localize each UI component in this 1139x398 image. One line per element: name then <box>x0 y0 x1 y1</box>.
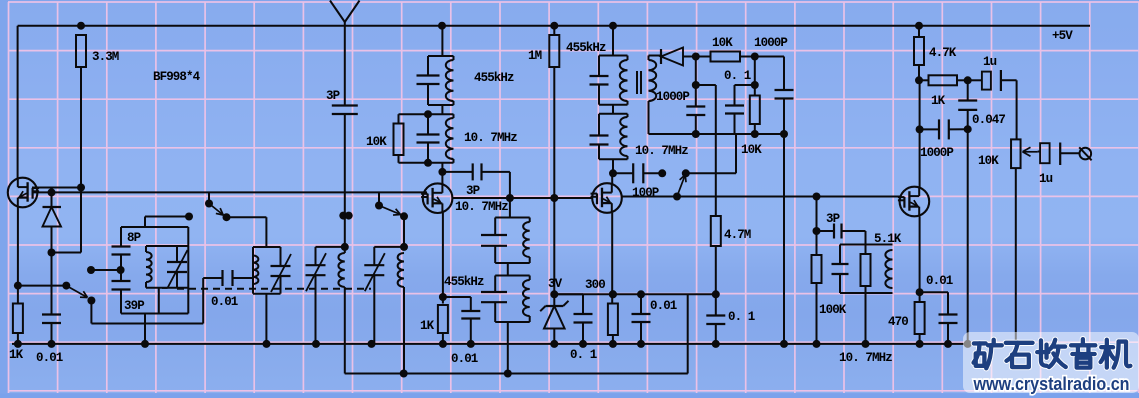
wire IFT2 mid b <box>427 143 429 163</box>
node source/AGC <box>14 282 22 290</box>
wire tank3 to busA <box>315 275 317 344</box>
svg-text:4.7K: 4.7K <box>929 46 957 60</box>
wire tap to 0.01 coupling <box>91 278 203 324</box>
node busA 0.1z <box>579 340 587 348</box>
wire IFT3 right b <box>529 257 531 263</box>
wire IFT1 right a <box>453 56 455 60</box>
label 4.7M <box>724 228 751 242</box>
capacitor 1u b <box>1038 143 1080 166</box>
wire 0.047 b <box>967 110 969 129</box>
wire tap line <box>91 269 121 271</box>
wire antenna down <box>344 114 346 253</box>
label 1000P c <box>920 146 953 160</box>
wire gang dashed link <box>177 288 371 290</box>
wire tank2 outline <box>253 247 281 266</box>
wire M1 drain to rail <box>17 26 19 178</box>
node busA 0.1b <box>712 340 720 348</box>
wire tank3 varcap branch <box>315 247 317 265</box>
wire detIFT2 left b <box>598 145 600 160</box>
wire quad left a <box>839 245 841 265</box>
label 10K b <box>712 36 733 50</box>
label BF998*4 <box>153 70 201 84</box>
capacitor 3P antenna <box>332 106 358 115</box>
label 455kHz a <box>474 71 514 85</box>
wire 5.1K stub b <box>865 286 867 293</box>
wire M4 gate stub <box>893 196 900 198</box>
output jack <box>1079 147 1091 160</box>
resistor 470 <box>915 302 925 334</box>
wire bus B <box>345 373 688 375</box>
resistor 1K M1 source <box>13 304 23 334</box>
wire rail to IFT1 <box>441 26 443 56</box>
svg-text:10. 7MHz: 10. 7MHz <box>455 200 508 214</box>
wire tank4 coil to busB <box>403 287 405 374</box>
transistor MOSFET M4 BF998 <box>898 187 929 217</box>
label 1K b <box>420 319 435 333</box>
svg-text:10. 7MHz: 10. 7MHz <box>839 351 892 365</box>
variable capacitor tank4 <box>364 253 385 291</box>
wire M2 bypass tee <box>443 297 471 311</box>
wire M1 G2 line <box>32 187 81 189</box>
wire tank3 coil to busB <box>345 287 688 374</box>
node M3 source <box>609 290 617 298</box>
capacitor 1000P c <box>939 119 949 139</box>
svg-text:10. 7MHz: 10. 7MHz <box>464 131 517 145</box>
label 3V <box>548 277 563 291</box>
svg-text:4.7M: 4.7M <box>724 228 751 242</box>
wire IFT4 bottom <box>495 321 530 323</box>
svg-text:1000P: 1000P <box>656 90 689 104</box>
node rail/detIFT <box>609 22 617 30</box>
node busA 300 <box>609 340 617 348</box>
wire det mid link <box>612 105 614 114</box>
svg-text:0. 1: 0. 1 <box>728 310 755 324</box>
label 0.01 e <box>926 274 953 288</box>
svg-text:1u: 1u <box>1039 172 1053 186</box>
node filter feed <box>506 194 514 202</box>
resistor 1M <box>549 35 559 67</box>
capacitor 0.01 M2 bypass <box>461 311 480 319</box>
wire secondary top <box>649 56 662 61</box>
label 3.3M <box>92 50 119 64</box>
wire 3P right stub <box>482 172 510 198</box>
node busA tank4 <box>368 340 376 348</box>
svg-text:1K: 1K <box>420 319 435 333</box>
wire 1M to gate line <box>553 67 555 294</box>
node tank4 feed <box>400 212 408 220</box>
wire 4.7K stubs <box>918 26 920 37</box>
wire tank1 to bus <box>144 314 146 344</box>
node AFC tap <box>682 169 690 177</box>
wire AF takeoff <box>696 85 716 216</box>
node busA tank3 <box>312 340 320 348</box>
svg-text:+5V: +5V <box>1052 29 1073 43</box>
capacitor IFT4 tune <box>481 292 507 302</box>
wire detIFT top <box>599 55 628 57</box>
wire quad bottom <box>840 292 893 294</box>
wire bias rail <box>554 293 716 295</box>
node det mid left <box>692 81 700 89</box>
wire IFT1 left a <box>427 56 429 76</box>
node 1000P c <box>964 125 972 133</box>
arrow AFC <box>677 175 686 197</box>
wire tank4 varcap branch <box>373 247 375 265</box>
transistor MOSFET M1 BF998 <box>8 178 39 208</box>
wire 5.1K stub a <box>865 245 867 255</box>
potentiometer wiper arrow <box>1023 147 1038 156</box>
label 0.01 c <box>451 352 478 366</box>
wire tank1 left top <box>120 227 122 247</box>
node IFT2 top <box>424 110 432 118</box>
node rail/1M <box>550 22 558 30</box>
capacitor 3P regen <box>473 163 482 180</box>
node drain/3P <box>438 168 446 176</box>
node rail/IFT feed <box>438 22 446 30</box>
label 4.7K <box>929 46 957 60</box>
wire 1K b to bus <box>442 333 444 344</box>
node busA tank2 <box>263 340 271 348</box>
wire 10K stub b <box>398 155 400 163</box>
transistor MOSFET M2 BF998 <box>421 183 452 213</box>
wire 0.1 AF down <box>715 324 717 344</box>
wire det bottom bus <box>649 133 785 135</box>
wire tank1 inner bottom <box>146 287 188 289</box>
node 8P/39P tap <box>117 266 125 274</box>
wire IFT1 bottom <box>428 104 454 106</box>
resistor 3.3M <box>76 35 86 67</box>
wire AGC line <box>18 285 66 287</box>
svg-text:10K: 10K <box>712 36 733 50</box>
label 10.7MHz a <box>464 131 517 145</box>
node busA line <box>964 340 972 348</box>
node det out <box>692 53 700 61</box>
svg-text:www.crystalradio.cn: www.crystalradio.cn <box>973 373 1130 394</box>
node det bus b <box>751 130 759 138</box>
wire 4.7M down <box>715 246 717 294</box>
svg-text:1000P: 1000P <box>754 36 787 50</box>
node busA 1000Pb <box>780 340 788 348</box>
wire M2 source down <box>442 213 444 304</box>
node rail/3.3M <box>77 22 85 30</box>
wire quad top <box>840 244 893 246</box>
capacitor 0.1 zener <box>574 314 593 323</box>
resistor 300 <box>608 304 618 336</box>
transistor MOSFET M3 BF998 <box>591 183 622 213</box>
node bias zener <box>550 290 558 298</box>
capacitor IFT2 tune <box>417 135 440 143</box>
wire IFT3 left a <box>494 218 496 236</box>
inductor detIFT primary <box>620 60 628 101</box>
wire IFT2 mid a <box>427 114 429 134</box>
wire quad left b <box>839 274 841 293</box>
wire tap2 stub <box>208 192 210 203</box>
wire IFT2 right a <box>453 114 455 118</box>
wire tank2 to bus <box>265 294 267 344</box>
node stub end <box>185 213 193 221</box>
capacitor detIFT2 tune <box>590 136 609 145</box>
wire tank1 inner left b <box>145 282 147 288</box>
node M4 source <box>916 288 924 296</box>
node AGC end <box>62 282 70 290</box>
wire det res right <box>740 56 755 58</box>
label 0.1 c <box>570 348 597 362</box>
node M4 gate tee <box>813 193 821 201</box>
wire quad to bus <box>865 293 867 344</box>
wire IFT2 right b <box>453 159 455 163</box>
label 1000P b <box>754 36 787 50</box>
wire 0.1 zener stub <box>554 293 583 295</box>
label 0.01 b <box>211 295 238 309</box>
svg-text:1K: 1K <box>931 94 946 108</box>
wire IFT3 bottom <box>495 262 530 264</box>
label 470 <box>888 315 908 329</box>
capacitor 0.01 coupling <box>223 270 233 286</box>
svg-text:0.01: 0.01 <box>650 299 677 313</box>
variable capacitor tank2 <box>271 254 292 292</box>
wire 1K out right <box>957 79 968 81</box>
wire det mid right <box>754 57 756 96</box>
label 100K <box>819 303 847 317</box>
node busA zener <box>550 340 558 348</box>
wire M3 to M4 gate <box>622 196 900 198</box>
wire detIFT2 right b <box>627 156 629 159</box>
wire detIFT2 to drain <box>612 159 614 173</box>
inductor IFT4 L <box>523 280 530 316</box>
node AF low <box>712 290 720 298</box>
capacitor 0.01 M3 <box>632 314 651 322</box>
node busA 0.01d <box>637 340 645 348</box>
node rail/4.7K <box>915 22 923 30</box>
capacitor 1000P a <box>686 107 705 116</box>
wire 100P stub <box>613 172 633 174</box>
capacitor 39P <box>112 281 131 290</box>
wire 0.047 a <box>967 80 969 100</box>
inductor tank4 L <box>398 253 404 287</box>
inductor IFT2 L <box>446 118 454 159</box>
wire 3P left stub <box>442 171 472 173</box>
wire 0.047 node down <box>967 129 969 344</box>
wire det node down <box>695 57 697 107</box>
node busA bypass <box>467 340 475 348</box>
inductor IFT1 L <box>446 60 454 101</box>
label 1u a <box>983 55 997 69</box>
node G1 tap2 <box>205 200 213 208</box>
wire IFT4 left b <box>494 302 496 322</box>
label 1M <box>528 49 542 63</box>
wire 0.01 M3 b <box>640 322 642 344</box>
label 1K c <box>931 94 946 108</box>
label 10. 7MHz b <box>455 200 508 214</box>
wire 3P line <box>817 230 835 232</box>
wire IFT1 right b <box>453 101 455 105</box>
node G2/3.3M <box>77 184 85 192</box>
watermark text 矿石收音机 (drawn as paths) <box>974 339 1131 368</box>
node amp out <box>915 76 923 84</box>
wire 8P to 39P <box>120 255 122 282</box>
node det bus a <box>692 130 700 138</box>
node busA quad <box>862 340 870 348</box>
node antenna tap a <box>339 212 347 220</box>
node bias M3 <box>609 290 617 298</box>
inductor tank3 L <box>338 253 344 287</box>
wire IFT4 right b <box>529 316 531 322</box>
svg-text:8P: 8P <box>127 231 141 245</box>
wire tank2 feed <box>227 217 267 247</box>
variable capacitor tank1 <box>162 250 188 288</box>
label 455kHz c <box>444 275 484 289</box>
resistor 4.7M <box>711 216 721 246</box>
node det mid r <box>751 81 759 89</box>
node AFC arrow base <box>673 193 681 201</box>
label 0.1 a <box>724 69 751 83</box>
node tap left <box>87 266 95 274</box>
wire 0.01 M3 a <box>640 294 642 314</box>
node G1/diode <box>48 188 56 196</box>
node tank4 corner <box>400 243 408 251</box>
wire diode to cap <box>51 253 53 315</box>
wire 100P to tap <box>643 172 662 174</box>
wire bypass to bus <box>470 319 472 344</box>
wire 100K to bus <box>816 283 818 344</box>
wire 0.1 det down <box>734 114 736 135</box>
node M2 source <box>439 293 447 301</box>
wire IFT2 bottom <box>399 162 454 164</box>
resistor 5.1K <box>861 254 871 286</box>
transformer core <box>637 71 641 94</box>
wire tank1 top stub <box>145 217 189 228</box>
wire tap4 stub <box>378 192 380 205</box>
inductor detIFT secondary <box>649 60 657 101</box>
inductor IFT3 L <box>523 222 530 257</box>
wire varcap tank1 stems <box>176 246 178 262</box>
wire M4 source down <box>919 216 921 302</box>
resistor 10K det <box>711 52 741 62</box>
label 300 <box>585 278 605 292</box>
svg-text:1000P: 1000P <box>920 146 953 160</box>
wire detIFT right b <box>627 101 629 105</box>
capacitor quad C <box>832 264 849 274</box>
svg-text:BF998*4: BF998*4 <box>153 70 201 84</box>
svg-text:0.01: 0.01 <box>211 295 238 309</box>
svg-text:3P: 3P <box>826 212 840 226</box>
wire IFT1-IFT2 <box>441 105 443 114</box>
svg-text:3P: 3P <box>326 89 340 103</box>
wire 1K out left <box>919 79 929 81</box>
capacitor 0.1 det <box>725 106 744 114</box>
wire 0.1 z b <box>582 323 584 344</box>
diode AGC D1 <box>43 192 62 252</box>
label 10K c <box>741 143 762 157</box>
label 0.01 d <box>650 299 677 313</box>
wire 0.1 tee <box>735 85 755 106</box>
node antenna tap b <box>345 212 353 220</box>
wire 10K stubs <box>398 114 400 123</box>
node drain/1000P <box>916 125 924 133</box>
wire 1000P a down <box>695 115 697 134</box>
node det filt <box>751 53 759 61</box>
svg-text:0.01: 0.01 <box>926 274 953 288</box>
label 100P <box>632 186 659 200</box>
inductor tank2 L <box>253 256 258 285</box>
node busB tank4 <box>400 370 408 378</box>
svg-text:100K: 100K <box>819 303 847 317</box>
svg-text:3P: 3P <box>466 184 480 198</box>
svg-text:1u: 1u <box>983 55 997 69</box>
watermark background patch <box>963 332 1139 393</box>
label 10K pot <box>978 154 999 168</box>
wire 100K branch <box>816 197 818 256</box>
label 5.1K <box>874 232 902 246</box>
wire G1 bus <box>32 191 427 193</box>
wire IFT4 left a <box>494 276 496 293</box>
wire bus A <box>12 343 975 345</box>
wire det to 1000P right <box>755 57 784 91</box>
svg-text:10K: 10K <box>978 154 999 168</box>
node busB filter <box>504 370 512 378</box>
node 100P end <box>658 169 666 177</box>
wire 300 to bus <box>612 335 614 344</box>
wire M2 right to M3 gate <box>452 197 593 199</box>
wire pot bottom <box>1015 168 1017 341</box>
wire 10K det2 down <box>754 124 756 134</box>
node G1 tap4 <box>375 202 383 210</box>
svg-text:5.1K: 5.1K <box>874 232 902 246</box>
label 1000P a <box>656 90 689 104</box>
node busA 1K <box>14 340 22 348</box>
svg-text:0.01: 0.01 <box>36 351 63 365</box>
node IFT2 bottom <box>424 159 432 167</box>
label 0.01 a <box>36 351 63 365</box>
wire detIFT2 right a <box>627 114 629 117</box>
wire 1000P c left <box>920 128 939 130</box>
arrow gang tap2 <box>209 204 223 216</box>
wire G2 node down <box>52 188 82 253</box>
resistor 4.7K <box>914 37 924 65</box>
svg-text:0.047: 0.047 <box>972 113 1005 127</box>
wire 1M down <box>553 26 555 35</box>
svg-text:455kHz: 455kHz <box>444 275 484 289</box>
wire tank1 outline <box>121 227 188 314</box>
inductor detIFT2 L <box>620 117 627 156</box>
node 1M/gate <box>550 194 558 202</box>
wire filter feed <box>509 198 511 218</box>
svg-text:3V: 3V <box>548 277 563 291</box>
wire det bus drop <box>686 134 736 173</box>
node busA 1Kb <box>439 340 447 348</box>
node osc tap <box>87 297 95 305</box>
wire detIFT2 left a <box>598 114 600 136</box>
node bias 0.01 <box>637 290 645 298</box>
capacitor IFT1 tune <box>417 76 440 85</box>
wire IFT3 top <box>495 217 530 219</box>
wire detIFT left b <box>598 85 600 105</box>
diode detector <box>661 48 696 66</box>
label 3P c <box>826 212 840 226</box>
wire 1000P c right <box>949 128 968 130</box>
wire IFT3 right a <box>529 218 531 223</box>
node 100P tee <box>609 169 617 177</box>
capacitor 100P <box>633 163 643 183</box>
wire IFT3 left b <box>494 246 496 263</box>
wire M4 drain up <box>919 80 921 187</box>
label 3P antenna <box>326 89 340 103</box>
variable capacitor tank3 <box>306 253 327 291</box>
svg-text:10K: 10K <box>366 135 387 149</box>
svg-text:10K: 10K <box>741 143 762 157</box>
svg-text:0.01: 0.01 <box>451 352 478 366</box>
wire M3 source down <box>611 213 613 304</box>
wire tank1 inner top <box>146 245 188 247</box>
